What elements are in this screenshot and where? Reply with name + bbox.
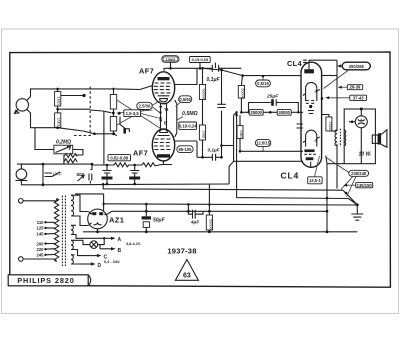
screen label oval 15/65 (162, 56, 179, 70)
oval 95-105 (177, 146, 193, 153)
svg-text:0,4 - 34V.: 0,4 - 34V. (104, 259, 121, 264)
frame border of schematic (8, 52, 390, 287)
top label box 0,15-0,65 (190, 57, 211, 70)
svg-text:1937-38: 1937-38 (167, 247, 196, 256)
triangle mark 63 (175, 260, 198, 281)
wave trap row wire (17, 163, 92, 165)
oval 12,5/15 (255, 139, 270, 151)
svg-text:PHILIPS 2820: PHILIPS 2820 (17, 276, 74, 285)
anode wire AF7-1 to coupling cap (175, 68, 197, 84)
wire selector stub (61, 95, 84, 97)
wire grid feed to CL4 (203, 68, 302, 75)
mains terminal bottom (19, 257, 57, 262)
AF7 pointer lines (117, 100, 161, 129)
svg-text:13,5-1: 13,5-1 (309, 178, 322, 183)
svg-text:12,5/15: 12,5/15 (256, 141, 271, 146)
svg-text:'B: 'B (164, 107, 169, 112)
trimmer capacitor 500 (77, 163, 94, 184)
wire AF7 cathode stem (163, 161, 165, 165)
anode voltage oval 250/265 (324, 62, 371, 88)
oval 0,5/16 (256, 75, 271, 87)
svg-text:245: 245 (37, 253, 45, 258)
wire down to wave trap row (103, 111, 105, 165)
HT vertical feed line (336, 60, 338, 131)
heater tap arrows A B C D (80, 237, 141, 270)
svg-text:A: A (118, 237, 122, 243)
svg-text:OFF: OFF (53, 172, 62, 177)
volume potentiometer 0,2MΩ (35, 128, 83, 155)
band switch dashed link (89, 87, 91, 137)
svg-text:3,8-4,2V.: 3,8-4,2V. (126, 242, 141, 246)
wire AF7 top cap (164, 68, 197, 71)
tone coil (double winding) (64, 154, 83, 164)
field coil / magnet (349, 109, 367, 164)
CL4 tube envelope (two systems) (301, 60, 337, 167)
svg-text:0,1μF: 0,1μF (207, 77, 221, 83)
svg-text:200: 200 (37, 241, 45, 246)
wire to rectifier cathode (75, 194, 104, 211)
svg-text:63: 63 (183, 273, 191, 280)
svg-text:250/265: 250/265 (349, 64, 365, 69)
wire tap to band switch (58, 86, 153, 110)
svg-text:D: D (98, 263, 102, 269)
grid capacitor C2 (123, 128, 126, 134)
bus convergence to ground (343, 190, 357, 214)
rectifier tube AZ1 (88, 209, 108, 233)
heater pins between AF7 systems (159, 104, 169, 130)
transformer core (61, 196, 63, 267)
rectifier filament winding (71, 225, 73, 234)
grid leak 0,5MΩ (177, 111, 198, 120)
label box 37-43 (321, 95, 367, 100)
power transformer primary winding (54, 199, 58, 261)
svg-text:0,5/60: 0,5/60 (179, 97, 191, 102)
heater bus wire B (103, 184, 343, 190)
svg-text:15/65: 15/65 (166, 57, 177, 62)
primary voltage taps (37, 220, 55, 258)
AF7 tube 2 envelope (152, 129, 174, 161)
svg-text:30000: 30000 (278, 110, 290, 115)
pickup socket (16, 164, 44, 185)
svg-text:50000: 50000 (208, 219, 212, 230)
svg-text:50000: 50000 (240, 88, 244, 99)
svg-text:B: B (118, 248, 122, 254)
bias label box 1,5-3,5 (124, 110, 141, 117)
svg-text:0,52-0,88: 0,52-0,88 (110, 155, 128, 160)
label box 0,18-0,24 (179, 122, 197, 129)
svg-text:1500: 1500 (328, 122, 332, 130)
wire grid return (58, 128, 117, 136)
cathode label box 13,5-15 (308, 156, 322, 184)
B+ rail from rectifier (107, 211, 328, 214)
grid resistor CL4 (237, 115, 243, 151)
bypass cap 25uF over resistors (247, 94, 299, 114)
grid filter resistors 25000 / 30000 (240, 110, 303, 116)
svg-text:CL4: CL4 (281, 170, 300, 180)
screen resistor lower (199, 125, 205, 157)
svg-text:1MΩ: 1MΩ (57, 118, 62, 127)
heater bus wire C (104, 204, 353, 205)
grid heater pins CL4 column (297, 124, 304, 128)
svg-text:B: B (164, 121, 168, 126)
label box 135/150 with arrow (343, 183, 373, 188)
svg-text:25000: 25000 (250, 110, 262, 115)
svg-text:10 W.: 10 W. (359, 152, 372, 158)
resistor 2 (antenna divider bottom) (55, 108, 62, 129)
measurement oval 2,5/30 (137, 102, 152, 109)
anode stopper resistor (322, 115, 337, 132)
svg-text:1MΩ: 1MΩ (239, 130, 243, 138)
svg-text:230/240: 230/240 (351, 171, 367, 176)
svg-text:125: 125 (37, 226, 45, 231)
pilot lamp winding (71, 240, 73, 249)
AF7 tube 1 envelope (152, 68, 197, 104)
coupling cap to output stage (175, 141, 234, 161)
loudspeaker (372, 130, 387, 148)
svg-text:25μF: 25μF (266, 94, 279, 100)
speaker box (344, 108, 375, 164)
svg-text:135/150: 135/150 (357, 183, 373, 188)
svg-text:26-39: 26-39 (350, 85, 361, 90)
pilot lamp (90, 237, 105, 248)
cathode wires lower CL4 (240, 150, 303, 152)
smoothing cap (vertical plates) (217, 69, 225, 146)
svg-text:145: 145 (37, 232, 45, 237)
svg-text:AF7: AF7 (133, 149, 148, 158)
bleeder resistor (206, 184, 212, 233)
mains terminal top (19, 199, 57, 204)
svg-text:AF7: AF7 (139, 67, 154, 76)
svg-text:220: 220 (37, 247, 45, 252)
svg-text:CL4: CL4 (287, 59, 302, 68)
antenna socket (15, 89, 58, 128)
svg-text:50000: 50000 (202, 89, 206, 100)
svg-text:0,18-0,24: 0,18-0,24 (179, 123, 197, 128)
output return wire (327, 163, 344, 165)
svg-text:AZ1: AZ1 (109, 216, 125, 225)
svg-text:37-43: 37-43 (353, 95, 364, 100)
svg-text:1,5-3,5: 1,5-3,5 (126, 111, 140, 116)
svg-text:50μF: 50μF (153, 218, 166, 224)
ground symbol (351, 214, 363, 220)
heater winding (71, 255, 73, 264)
filter capacitor 50uF (142, 203, 166, 233)
padder label box (108, 155, 131, 161)
wire cathode link (175, 100, 177, 137)
svg-text:2,5/30: 2,5/30 (139, 104, 151, 109)
svg-text:0,2MΩ: 0,2MΩ (56, 140, 71, 146)
on/off switch (42, 163, 63, 187)
coupling capacitor 0,1uF top (197, 63, 241, 84)
right of AF7: oval 0,5/60 (176, 96, 192, 107)
IF trimmer resistor row (92, 161, 172, 184)
svg-text:1MΩ: 1MΩ (57, 96, 62, 105)
svg-text:0,5/16: 0,5/16 (257, 81, 269, 86)
decoupling resistor (anode load) (199, 67, 205, 125)
wire divider tap (90, 110, 111, 113)
svg-text:0,1μF: 0,1μF (208, 148, 220, 153)
svg-text:0,5MΩ: 0,5MΩ (182, 111, 198, 117)
output transformer (335, 129, 346, 189)
title box PHILIPS 2820 (8, 275, 91, 286)
wire CL4 anode to HT (322, 75, 338, 77)
ground rail bottom (83, 231, 357, 233)
label box 26-39 (338, 85, 363, 90)
filter capacitor 4uF (187, 203, 203, 224)
svg-text:4μF: 4μF (190, 220, 199, 225)
resistor 1MΩ (antenna divider top) (55, 88, 62, 113)
screen dropper resistor (238, 76, 244, 113)
svg-text:110: 110 (37, 220, 44, 225)
HT secondary winding (71, 195, 74, 216)
svg-text:0,15-0,65: 0,15-0,65 (192, 57, 209, 62)
svg-text:95-105: 95-105 (178, 147, 192, 152)
speaker voltage oval 230/240 (341, 170, 369, 197)
svg-text:1MΩ: 1MΩ (202, 130, 206, 138)
grid resistor column x=112 (58, 88, 130, 165)
return wire A (43, 183, 229, 186)
